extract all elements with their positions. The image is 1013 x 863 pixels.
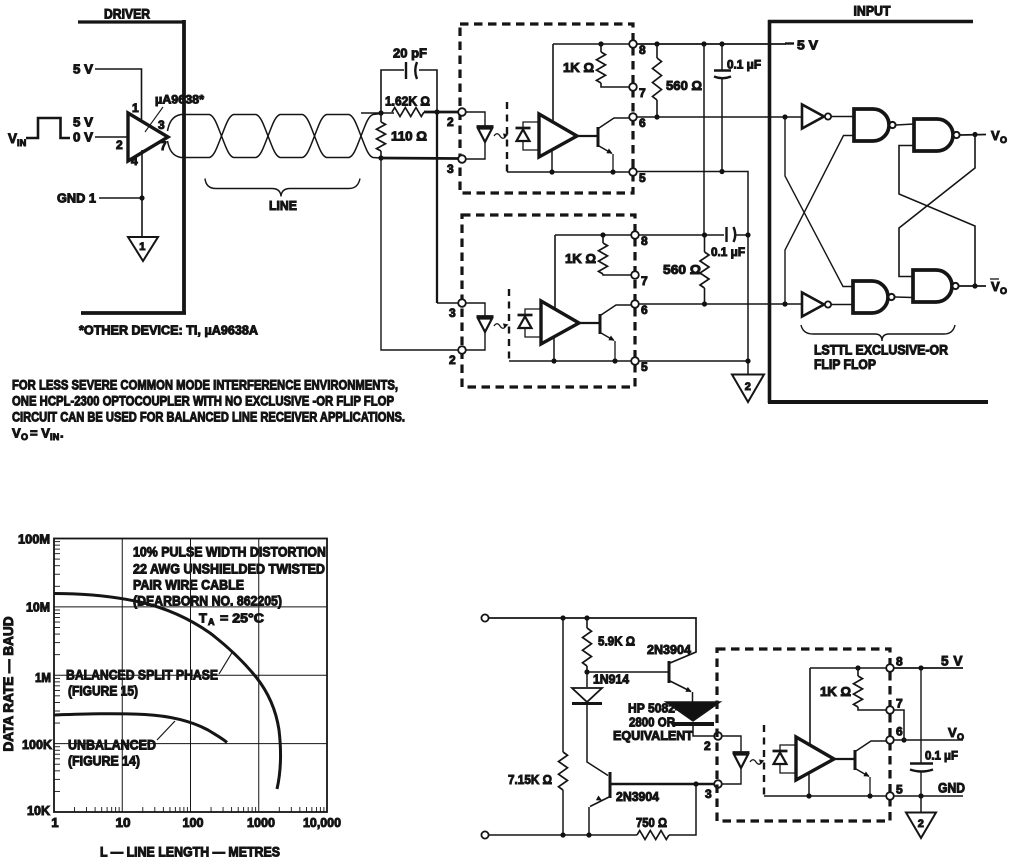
svg-text:2: 2 bbox=[704, 739, 711, 753]
pin 8 U4 bbox=[886, 664, 894, 672]
nand gate 2 (Q output) bbox=[914, 119, 953, 151]
junction 560-2 top bbox=[702, 232, 707, 237]
svg-text:L — LINE LENGTH — METRES: L — LINE LENGTH — METRES bbox=[100, 845, 280, 860]
junction input B bbox=[782, 301, 787, 306]
pin 6 U4 bbox=[886, 736, 894, 744]
wire to ground symbol bbox=[920, 796, 922, 812]
svg-text:10% PULSE WIDTH DISTORTION: 10% PULSE WIDTH DISTORTION bbox=[133, 545, 326, 560]
junction cross A bbox=[434, 109, 439, 114]
transistor U4 emitter bbox=[856, 769, 869, 777]
resistor 560-2 bbox=[704, 235, 706, 252]
node pin 2 circle (opto U3) bbox=[458, 346, 466, 354]
svg-text:1: 1 bbox=[51, 815, 58, 830]
junction Vobar bbox=[972, 283, 977, 288]
transistor Q2 collector wire bbox=[611, 783, 714, 785]
wire amp out U2 bbox=[577, 135, 598, 137]
wire amp out U3 bbox=[579, 322, 600, 324]
wire Vin to driver pin 2 bbox=[95, 136, 128, 138]
svg-text:10,000: 10,000 bbox=[303, 815, 341, 830]
graph log minor ticks bbox=[54, 790, 60, 792]
graph plot border bbox=[54, 539, 327, 813]
wire pin5 U2 gnd to gnd rail bbox=[637, 172, 748, 375]
pin 7 U2 bbox=[629, 83, 637, 91]
svg-text:1.62K Ω: 1.62K Ω bbox=[385, 94, 430, 109]
wire LED U4 to node3 bbox=[723, 768, 742, 784]
svg-text:5 V: 5 V bbox=[73, 115, 93, 130]
capacitor 0.1uF-2 plates bbox=[725, 227, 727, 242]
input pulse waveform bbox=[26, 118, 70, 138]
resistor 1K U3 bbox=[602, 235, 604, 243]
transistor U3 emitter bbox=[601, 333, 614, 341]
svg-text:O: O bbox=[21, 432, 28, 442]
junction 7.15K top bbox=[560, 615, 565, 620]
svg-text:0.1 μF: 0.1 μF bbox=[727, 58, 761, 72]
LED U4 bbox=[733, 751, 750, 754]
junction cap2 gnd bbox=[745, 232, 750, 237]
driver op-amp U1 triangle bbox=[128, 113, 168, 161]
junction 1K top U3 bbox=[600, 232, 605, 237]
svg-text:2: 2 bbox=[745, 381, 751, 393]
svg-text:6: 6 bbox=[641, 303, 648, 317]
feedback Qbar to nand2 bbox=[899, 146, 975, 287]
junction 1K top U2 bbox=[598, 41, 603, 46]
wire 110 top bbox=[380, 113, 382, 122]
svg-text:INPUT: INPUT bbox=[854, 4, 892, 19]
svg-text:10: 10 bbox=[116, 815, 131, 830]
wire pin8 U3 row bbox=[639, 234, 724, 236]
wire node2 to LED U4 bbox=[722, 736, 741, 752]
flipflop underbrace bbox=[801, 325, 955, 341]
svg-text:3: 3 bbox=[447, 162, 454, 176]
input terminal bottom bbox=[481, 831, 488, 838]
wire driver pin 4 to ground bbox=[141, 150, 143, 237]
pin 5 U3 bbox=[631, 357, 639, 365]
ground symbol 2 (top circuit) bbox=[732, 375, 764, 403]
vertical 5V feed to opto2 bbox=[703, 44, 705, 235]
cross wire A to nand3 bbox=[785, 117, 853, 287]
svg-text:7: 7 bbox=[896, 697, 903, 711]
inverter 2 bbox=[802, 293, 824, 317]
pin 7 U3 bbox=[631, 271, 639, 279]
svg-text:8: 8 bbox=[896, 655, 903, 669]
wire nand1 out to nand2 bbox=[896, 124, 914, 125]
twisted pair wire A bbox=[168, 114, 382, 158]
capacitor 20pF loop wires bbox=[381, 70, 404, 113]
capacitor 0.1uF top bbox=[721, 44, 723, 70]
5V supply wire to driver pin 1 bbox=[95, 69, 142, 122]
wire amp bottom to gnd U2 bbox=[551, 150, 553, 172]
svg-text:.: . bbox=[60, 426, 64, 441]
svg-text:O: O bbox=[957, 732, 964, 742]
optocoupler outer shield dashed box U4 bbox=[717, 649, 890, 821]
transistor U3 base bar bbox=[599, 314, 602, 334]
nand gate 1 bbox=[854, 109, 889, 141]
cross wire B to nand1 bbox=[785, 136, 854, 305]
wire Q1 emitter to diode bbox=[692, 692, 694, 702]
photodiode U3 wires bbox=[525, 309, 541, 315]
svg-text:EQUIVALENT: EQUIVALENT bbox=[613, 728, 693, 743]
resistor 1K U2 bbox=[600, 44, 602, 52]
wire node3 to LED U3 bbox=[466, 303, 485, 316]
cross wire A' down to opto2 input bbox=[436, 112, 438, 303]
wire node2 to LED U2 bbox=[466, 112, 485, 126]
svg-text:7.15K Ω: 7.15K Ω bbox=[508, 772, 552, 787]
nand gate 3 bbox=[853, 281, 888, 313]
svg-text:V: V bbox=[12, 426, 21, 441]
wire pin8 row U4 bbox=[810, 667, 886, 669]
transistor Q2 emitter bbox=[590, 797, 609, 807]
svg-text:100: 100 bbox=[183, 815, 204, 830]
svg-text:1K Ω: 1K Ω bbox=[820, 684, 851, 699]
wire nand3 out to nand4 bbox=[895, 296, 913, 299]
resistor 5.9K bbox=[586, 618, 588, 628]
svg-text:6: 6 bbox=[896, 725, 903, 739]
pin 7 U4 bbox=[886, 706, 894, 714]
svg-text:= 25°C: = 25°C bbox=[220, 611, 265, 626]
svg-text:DRIVER: DRIVER bbox=[104, 7, 150, 22]
svg-text:V: V bbox=[991, 128, 1000, 143]
wire 110 bottom bbox=[380, 151, 382, 158]
wire pin5 U3 to gnd rail bbox=[639, 360, 748, 362]
unbalanced pointer bbox=[157, 721, 175, 740]
svg-text:FOR LESS SEVERE COMMON MODE IN: FOR LESS SEVERE COMMON MODE INTERFERENCE… bbox=[12, 378, 398, 393]
svg-text:6: 6 bbox=[639, 116, 646, 130]
balanced split phase curve bbox=[54, 594, 281, 790]
wire pin7 to Vo row bbox=[894, 710, 904, 740]
wire line B to node 3 (thick) bbox=[381, 157, 458, 160]
junction 560-2 bottom bbox=[702, 301, 707, 306]
5V rail (bottom) bbox=[894, 667, 963, 669]
junction cap3 bottom bbox=[918, 793, 923, 798]
junction 560-1 bottom bbox=[654, 114, 659, 119]
svg-text:5: 5 bbox=[641, 360, 648, 374]
svg-text:HP 5082-: HP 5082- bbox=[628, 701, 679, 716]
LED U3 bbox=[477, 315, 494, 318]
svg-text:PAIR WIRE CABLE: PAIR WIRE CABLE bbox=[133, 578, 244, 593]
balanced pointer bbox=[219, 651, 233, 674]
pin 8 U2 bbox=[629, 40, 637, 48]
photodiode U4 bbox=[773, 750, 788, 753]
wire GND label to node bbox=[99, 197, 142, 199]
wire 750 to node 3 bbox=[669, 784, 696, 835]
transistor U2 base bar bbox=[597, 127, 600, 147]
pin 6 U3 bbox=[631, 300, 639, 308]
svg-text:10M: 10M bbox=[26, 600, 50, 615]
wire amp bottom to gnd U3 bbox=[553, 337, 555, 361]
wire base Q1 bbox=[587, 671, 668, 673]
svg-text:0.1 μF: 0.1 μF bbox=[711, 245, 745, 259]
graph grid lines bbox=[121, 539, 123, 813]
svg-text:560 Ω: 560 Ω bbox=[663, 262, 701, 277]
wire inverter1 to nand1 bbox=[832, 116, 855, 118]
top rail wire bbox=[489, 618, 696, 663]
svg-text:O: O bbox=[1000, 135, 1007, 145]
junction amp gnd U4 bbox=[806, 793, 811, 798]
diode 1N914 bbox=[586, 672, 588, 687]
svg-text:V: V bbox=[948, 725, 957, 740]
photodiode U2 bbox=[516, 127, 531, 130]
junction cap3 top bbox=[918, 665, 923, 670]
svg-text:1K Ω: 1K Ω bbox=[563, 60, 594, 75]
LED U2 bbox=[477, 125, 494, 128]
svg-text:4: 4 bbox=[131, 154, 138, 168]
light arrow U2 bbox=[494, 134, 506, 139]
wire pin8 row U2 bbox=[553, 43, 629, 45]
junction 5.9K bottom bbox=[584, 669, 589, 674]
svg-text:5 V: 5 V bbox=[941, 654, 963, 669]
svg-text:10K: 10K bbox=[27, 803, 51, 818]
transistor U4 base bar bbox=[854, 750, 857, 770]
junction 1K top U4 bbox=[855, 665, 860, 670]
transistor Q2 base bar bbox=[609, 772, 612, 798]
junction bypass col bbox=[701, 41, 706, 46]
svg-text:(DEARBORN NO. 862205): (DEARBORN NO. 862205) bbox=[133, 594, 282, 609]
svg-text:IN: IN bbox=[17, 138, 27, 148]
transistor Q1 emitter bbox=[670, 681, 691, 692]
photodiode U4 wires bbox=[780, 745, 796, 751]
svg-text:1: 1 bbox=[132, 101, 139, 115]
junction termination B bbox=[378, 155, 383, 160]
svg-text:GND 1: GND 1 bbox=[57, 191, 96, 206]
wire line A to termination node bbox=[361, 112, 394, 114]
svg-text:100K: 100K bbox=[22, 737, 53, 752]
junction 560-1 top bbox=[654, 41, 659, 46]
junction Q2 emitter rail bbox=[586, 832, 591, 837]
wire pin6 U2 to inverter (input A) bbox=[637, 116, 802, 118]
junction termination A bbox=[378, 110, 383, 115]
resistor 1.62K bbox=[392, 108, 424, 117]
optocoupler outer shield dashed box U3 bbox=[462, 215, 635, 387]
svg-text:5 V: 5 V bbox=[797, 38, 818, 53]
svg-text:100M: 100M bbox=[18, 532, 50, 547]
svg-text:7: 7 bbox=[639, 86, 646, 100]
pin 5 U4 bbox=[886, 792, 894, 800]
optocoupler outer shield dashed box U2 bbox=[460, 24, 633, 193]
svg-text:7: 7 bbox=[160, 139, 167, 153]
diode HP5082-2800 bbox=[666, 702, 720, 721]
wire amp bottom to gnd U4 bbox=[808, 773, 810, 796]
svg-text:DATA RATE — BAUD: DATA RATE — BAUD bbox=[1, 616, 16, 751]
wire inverter2 to nand3 bbox=[832, 304, 854, 306]
svg-text:IN: IN bbox=[50, 432, 60, 442]
wire LED U3 to node2 bbox=[467, 332, 486, 350]
node pin 2 circle (opto U4) bbox=[714, 732, 722, 740]
junction emitter gnd U3 bbox=[612, 358, 617, 363]
junction Vo bbox=[972, 132, 977, 137]
nand gate 4 (Qbar output) bbox=[913, 270, 952, 302]
svg-text:*OTHER DEVICE: TI, µA9638A: *OTHER DEVICE: TI, µA9638A bbox=[79, 323, 259, 338]
wire line B down to opto2 pin2 bbox=[381, 158, 458, 350]
light arrow U4 bbox=[750, 760, 762, 765]
5V rail from pin8 U2 bbox=[637, 43, 786, 45]
svg-text:22 AWG UNSHIELDED TWISTED: 22 AWG UNSHIELDED TWISTED bbox=[133, 562, 325, 577]
svg-text:110 Ω: 110 Ω bbox=[391, 129, 427, 144]
svg-text:5 V: 5 V bbox=[73, 62, 93, 77]
driver bracket outline bbox=[78, 20, 185, 23]
resistor 750 bbox=[637, 831, 669, 840]
input box border bbox=[768, 20, 772, 403]
svg-text:2: 2 bbox=[116, 138, 123, 152]
svg-text:7: 7 bbox=[641, 274, 648, 288]
wire 1.62K to node 2 (thick) bbox=[424, 111, 458, 114]
pin 6 U2 bbox=[629, 113, 637, 121]
wire 1N914 to Q2 base bbox=[587, 705, 608, 776]
svg-text:LSTTL EXCLUSIVE-OR: LSTTL EXCLUSIVE-OR bbox=[814, 343, 948, 358]
pin 5 U2 bbox=[629, 168, 637, 176]
svg-text:5: 5 bbox=[896, 783, 903, 797]
Vo row wire bbox=[894, 739, 963, 741]
svg-text:560 Ω: 560 Ω bbox=[666, 78, 702, 93]
junction collector/750 bbox=[693, 781, 698, 786]
junction 7.15K bottom bbox=[560, 832, 565, 837]
svg-text:GND: GND bbox=[938, 781, 965, 796]
node pin 3 circle (opto U3) bbox=[458, 299, 466, 307]
input terminal top bbox=[481, 614, 488, 621]
junction emitter gnd U4 bbox=[867, 793, 872, 798]
svg-text:1000: 1000 bbox=[247, 815, 275, 830]
svg-text:8: 8 bbox=[639, 43, 646, 57]
resistor 560-1 bbox=[656, 44, 658, 58]
bottom rail wire bbox=[489, 834, 637, 836]
wire pin6 U3 to inverter (input B) bbox=[639, 303, 802, 305]
svg-text:0.1 μF: 0.1 μF bbox=[925, 749, 958, 763]
svg-text:= V: = V bbox=[30, 426, 50, 441]
svg-text:T: T bbox=[199, 611, 207, 626]
wire diode to node 2 bbox=[693, 726, 714, 736]
wire cap2 right bbox=[735, 234, 748, 236]
op-amp U4 bbox=[796, 737, 834, 780]
transistor U2 collector bbox=[599, 118, 629, 128]
opto U4 inner package dashed outline bbox=[763, 725, 765, 796]
photodiode U2 wires bbox=[523, 122, 539, 128]
junction amp gnd U3 bbox=[551, 358, 556, 363]
uA9638 pointer line bbox=[145, 107, 163, 132]
wire gnd row U2 bbox=[507, 171, 629, 173]
resistor 1K U4 bbox=[857, 668, 859, 676]
ground symbol 2 (bottom circuit) bbox=[906, 813, 936, 839]
svg-text:(FIGURE 14): (FIGURE 14) bbox=[68, 754, 140, 769]
feedback Q to nand4 bbox=[899, 135, 975, 277]
resistor 7.15K bbox=[562, 618, 564, 752]
junction input A bbox=[782, 114, 787, 119]
svg-text:O: O bbox=[1000, 286, 1007, 296]
wire pin8 rail to amp U3 bbox=[554, 235, 556, 309]
wire nand2 out to Vo bbox=[960, 134, 986, 137]
svg-text:3: 3 bbox=[158, 118, 165, 132]
junction cap1 top bbox=[719, 41, 724, 46]
svg-text:0 V: 0 V bbox=[73, 130, 93, 145]
node pin 2 circle (opto U2) bbox=[458, 108, 466, 116]
svg-text:3: 3 bbox=[705, 787, 712, 801]
svg-text:1K Ω: 1K Ω bbox=[565, 251, 596, 266]
op-amp U3 bbox=[541, 301, 579, 344]
wire LED U2 to node3 bbox=[467, 142, 486, 159]
svg-text:2: 2 bbox=[449, 353, 456, 367]
wire nand4 out to Vobar bbox=[959, 285, 986, 287]
node pin 3 circle (opto U4) bbox=[714, 780, 722, 788]
node pin 3 circle (opto U2) bbox=[458, 155, 466, 163]
svg-text:FLIP FLOP: FLIP FLOP bbox=[814, 357, 876, 372]
wire pin8 row U3 bbox=[555, 234, 631, 236]
svg-text:5.9K Ω: 5.9K Ω bbox=[598, 634, 635, 649]
wire gnd row U4 bbox=[764, 795, 886, 797]
LINE underbrace bbox=[205, 179, 360, 197]
junction amp gnd U2 bbox=[549, 169, 554, 174]
pin 8 U3 bbox=[631, 231, 639, 239]
wire node2 to opto2 pin3 row bbox=[437, 302, 458, 304]
junction pin5 U3 gnd bbox=[745, 358, 750, 363]
svg-text:V: V bbox=[8, 131, 17, 146]
opto U3 inner package dashed outline bbox=[508, 289, 510, 361]
capacitor 20pF plates bbox=[405, 62, 407, 79]
svg-text:2: 2 bbox=[918, 818, 924, 830]
svg-text:BALANCED SPLIT PHASE: BALANCED SPLIT PHASE bbox=[66, 668, 218, 683]
svg-text:CIRCUIT CAN BE USED FOR BALANC: CIRCUIT CAN BE USED FOR BALANCED LINE RE… bbox=[12, 410, 405, 425]
light arrow U3 bbox=[494, 324, 506, 329]
svg-text:2N3904: 2N3904 bbox=[616, 789, 660, 804]
svg-text:8: 8 bbox=[641, 234, 648, 248]
svg-text:LINE: LINE bbox=[269, 198, 297, 213]
svg-text:5: 5 bbox=[639, 171, 646, 185]
twisted pair wire B bbox=[168, 115, 382, 159]
op-amp U2 bbox=[539, 114, 577, 157]
svg-text:(FIGURE 15): (FIGURE 15) bbox=[68, 684, 138, 699]
svg-text:3: 3 bbox=[449, 306, 456, 320]
svg-text:1: 1 bbox=[139, 241, 145, 253]
svg-text:20 pF: 20 pF bbox=[393, 46, 427, 61]
wire pin8 rail to amp U2 bbox=[552, 44, 554, 122]
resistor 110 ohm bbox=[377, 122, 386, 151]
svg-text:2: 2 bbox=[447, 115, 454, 129]
junction cap1 bottom bbox=[719, 169, 724, 174]
svg-text:A: A bbox=[208, 617, 215, 627]
transistor U4 collector bbox=[856, 741, 886, 751]
svg-text:µA9638*: µA9638* bbox=[155, 93, 204, 107]
opto U2 inner package dashed outline bbox=[506, 102, 508, 172]
transistor U3 collector bbox=[601, 305, 631, 315]
svg-text:UNBALANCED: UNBALANCED bbox=[68, 738, 156, 753]
wire pin8 rail to amp U4 bbox=[809, 668, 811, 745]
transistor U2 emitter bbox=[599, 146, 612, 154]
svg-text:750 Ω: 750 Ω bbox=[636, 815, 667, 830]
wire amp out U4 bbox=[834, 758, 855, 760]
junction GND node bbox=[139, 195, 144, 200]
transistor Q1 base bar bbox=[668, 661, 671, 683]
svg-text:1M: 1M bbox=[35, 670, 51, 685]
svg-text:V: V bbox=[991, 279, 1000, 294]
photodiode U3 bbox=[518, 314, 533, 317]
capacitor 0.1uF bottom bbox=[920, 668, 922, 763]
GND row wire bbox=[894, 795, 963, 797]
junction emitter gnd U2 bbox=[610, 169, 615, 174]
svg-text:1N914: 1N914 bbox=[593, 672, 630, 687]
inverter 1 bbox=[802, 105, 824, 129]
5V label stub (input box) bbox=[785, 42, 794, 44]
ground symbol 1 bbox=[128, 237, 158, 261]
unbalanced curve bbox=[54, 714, 227, 743]
junction 5.9K top bbox=[584, 615, 589, 620]
wire gnd row U3 bbox=[509, 360, 631, 362]
junction pin7 join bbox=[901, 737, 906, 742]
svg-text:ONE HCPL-2300 OPTOCOUPLER WITH: ONE HCPL-2300 OPTOCOUPLER WITH NO EXCLUS… bbox=[12, 394, 394, 409]
svg-text:2N3904: 2N3904 bbox=[647, 642, 692, 657]
